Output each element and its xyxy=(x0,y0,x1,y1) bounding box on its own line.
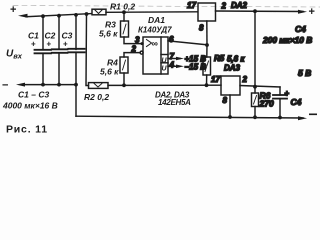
wire R3 to pin3 xyxy=(124,37,143,44)
svg-text:6: 6 xyxy=(169,35,174,44)
label DA2 DA3 type xyxy=(155,91,191,108)
wire R4 to bottom node xyxy=(123,73,125,85)
svg-text:+: + xyxy=(309,6,315,18)
plus output terminal xyxy=(298,6,315,18)
svg-text:+: + xyxy=(47,40,52,49)
svg-text:2: 2 xyxy=(131,45,137,54)
regulator DA3 xyxy=(211,64,248,106)
border dashed top xyxy=(13,6,320,8)
wire R2 feed vertical xyxy=(86,14,89,86)
arrow -15V xyxy=(168,62,206,71)
wire bottom rail xyxy=(76,116,303,118)
svg-text:∞: ∞ xyxy=(152,39,159,49)
svg-text:C4: C4 xyxy=(291,97,302,107)
svg-text:R5: R5 xyxy=(214,54,225,63)
svg-text:2: 2 xyxy=(221,2,227,11)
arrow +15V xyxy=(168,55,206,64)
minus output terminal xyxy=(298,114,317,121)
svg-text:17: 17 xyxy=(187,1,196,10)
wire top rail left xyxy=(26,14,91,17)
wire top rail right xyxy=(216,10,304,13)
node R2 feed top xyxy=(85,12,89,16)
node R3 top xyxy=(122,10,126,14)
capacitor C4 xyxy=(273,87,302,118)
wire pin6 to DA2 pin8 node xyxy=(168,41,207,45)
node C1 top xyxy=(41,14,45,18)
inverting input circle pin2 xyxy=(140,51,143,54)
capacitor C3 xyxy=(62,15,85,52)
svg-text:+: + xyxy=(31,40,36,49)
node C3 bottom junction xyxy=(74,83,78,87)
wire pin2 to R4 xyxy=(124,53,140,57)
svg-text:4000 мк×16 В: 4000 мк×16 В xyxy=(2,101,58,111)
minus input terminal xyxy=(2,80,25,92)
node C4 bottom xyxy=(278,116,282,120)
node R5 bottom xyxy=(205,83,209,87)
svg-text:+: + xyxy=(285,89,290,98)
capacitor C1 xyxy=(28,16,51,84)
resistor R5 xyxy=(203,45,245,75)
wire R5 to DA3 input line xyxy=(206,75,208,85)
svg-text:4: 4 xyxy=(169,61,175,70)
svg-text:R2 0,2: R2 0,2 xyxy=(84,92,109,102)
wire R2 out to DA3 input xyxy=(108,84,221,86)
op-amp DA1 xyxy=(138,15,172,74)
svg-text:5,6 к: 5,6 к xyxy=(227,55,245,64)
node C2 top xyxy=(57,14,61,18)
svg-text:+: + xyxy=(10,4,16,16)
svg-text:+: + xyxy=(63,40,68,49)
svg-text:C1 – C3: C1 – C3 xyxy=(18,90,49,100)
node output column bottom xyxy=(253,85,257,89)
svg-text:8: 8 xyxy=(223,96,228,105)
wire output column xyxy=(254,11,256,87)
node pin3 xyxy=(141,42,144,45)
svg-text:DA1: DA1 xyxy=(148,15,165,25)
node C2 bottom xyxy=(57,83,61,87)
plus input terminal xyxy=(10,4,28,18)
svg-text:2: 2 xyxy=(242,75,248,84)
node C3 top xyxy=(74,13,78,17)
regulator DA2 xyxy=(187,1,248,33)
capacitor C2 xyxy=(45,16,68,85)
resistor R1 xyxy=(92,2,135,15)
node C1 bottom xyxy=(41,83,45,87)
svg-text:C4: C4 xyxy=(295,24,306,34)
svg-text:270: 270 xyxy=(259,99,274,109)
wire C3 down to bottom rail xyxy=(75,52,77,116)
svg-text:DA3: DA3 xyxy=(224,64,241,73)
svg-text:8: 8 xyxy=(199,24,204,33)
svg-text:DA2: DA2 xyxy=(231,1,248,10)
node R6 bottom xyxy=(253,115,257,119)
resistor R2 xyxy=(84,83,109,102)
svg-text:5 В: 5 В xyxy=(298,68,311,78)
wire DA3 pin2 out xyxy=(240,86,280,88)
node DA3 pin8 bottom xyxy=(228,115,232,119)
svg-text:200 мк×10 В: 200 мк×10 В xyxy=(262,35,312,45)
node pin6/pin8/R5 xyxy=(205,43,209,47)
svg-text:17: 17 xyxy=(211,75,220,84)
svg-text:−: − xyxy=(2,80,8,92)
wire bottom left rail xyxy=(23,84,76,86)
svg-text:5,6 к: 5,6 к xyxy=(100,67,119,77)
svg-text:3: 3 xyxy=(135,36,140,45)
wire top rail mid xyxy=(106,11,197,14)
svg-text:5,6 к: 5,6 к xyxy=(99,29,118,39)
wire DA2 pin8 down xyxy=(206,21,208,45)
wire R6 to bottom rail xyxy=(254,107,256,118)
resistor R6 xyxy=(252,87,274,109)
svg-text:R1 0,2: R1 0,2 xyxy=(110,2,135,12)
wire DA3 pin8 down xyxy=(229,95,231,117)
svg-text:Рис. 11: Рис. 11 xyxy=(6,124,48,136)
resistor R3 xyxy=(99,12,129,38)
svg-text:142ЕН5А: 142ЕН5А xyxy=(158,98,191,107)
node output column top xyxy=(253,9,257,13)
svg-text:К140УД7: К140УД7 xyxy=(138,26,172,35)
node R4 bottom xyxy=(122,83,126,87)
resistor R4 xyxy=(100,57,128,77)
